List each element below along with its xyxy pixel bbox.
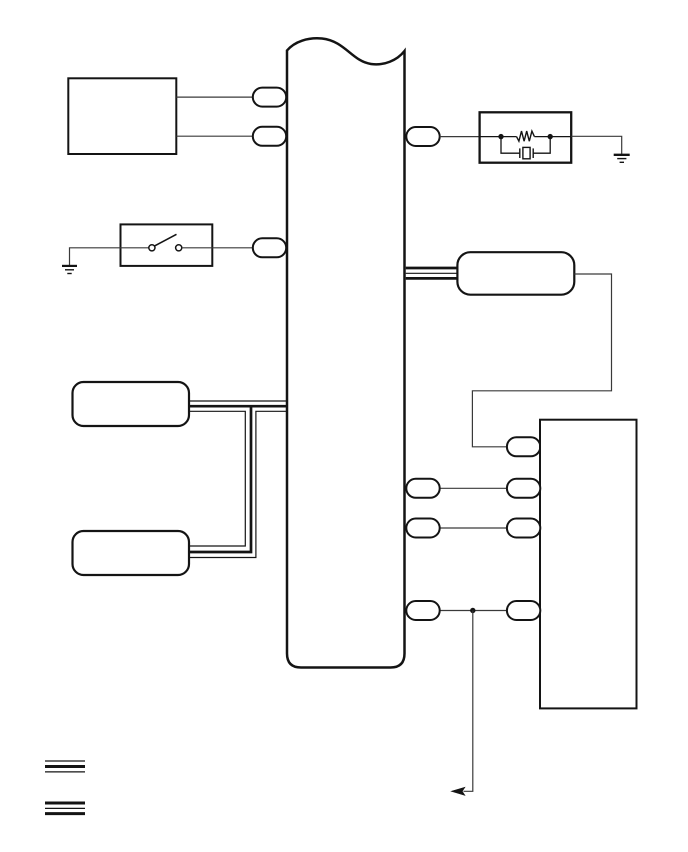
switch throw circle (right) — [176, 245, 182, 251]
shielded cable: thick core branch (vertical to lower device) — [190, 405, 251, 552]
wire junction down to arrow — [464, 611, 473, 792]
wire switch to ground — [70, 248, 121, 266]
wire through resistor box (right) — [534, 136, 571, 138]
switch lever — [155, 234, 177, 246]
connector pin oval (right, y136) — [406, 127, 439, 146]
shielded cable: thin inner line (upper horizontal) — [189, 400, 287, 402]
crystal element — [520, 147, 533, 158]
shielded cable trunk-to-module (thick upper line) — [406, 267, 458, 270]
resistor zigzag — [517, 131, 535, 141]
legend symbol: cable type 2 (thick-thin-thick) — [45, 803, 85, 814]
component box (top-left) — [68, 78, 176, 154]
node junction dot (left in box) — [498, 134, 503, 139]
connector pin oval (trunk, row1) — [406, 479, 439, 498]
connector pin oval A (right box, y447) — [507, 437, 540, 456]
wire box to pin (lower) — [176, 135, 253, 137]
shielded cable trunk-to-module (thick lower line) — [406, 277, 458, 280]
crystal branch wire (left) — [501, 137, 520, 154]
switch box — [121, 224, 213, 266]
connector pin oval (box, row2) — [507, 519, 540, 538]
legend symbol: cable type 1 (thin-thick-thin) — [45, 761, 85, 772]
controller box (right) — [540, 420, 637, 709]
arrowhead (points left) — [451, 787, 465, 795]
wire through resistor box (left) — [480, 136, 517, 138]
node junction dot (right in box) — [548, 134, 553, 139]
shielded cable: thin line upper-left to lower (inner corner path) — [189, 411, 245, 546]
connector pin oval (box, row3) — [507, 601, 540, 620]
ground (right) — [614, 155, 630, 163]
wire box to pin (upper) — [176, 96, 253, 98]
resistor network box — [480, 112, 572, 162]
wire module to pin A (Z path) — [472, 274, 611, 447]
device (rounded box, left lower) — [73, 531, 190, 575]
connector pin oval (left, y248) — [253, 238, 286, 257]
module (rounded box, right) — [457, 252, 574, 295]
connector pin oval (left, y97) — [253, 88, 286, 107]
switch contact wire (inside right) — [182, 247, 213, 249]
connector pin oval (trunk, row2) — [406, 519, 439, 538]
ground (left) — [62, 266, 77, 274]
wire row1 — [440, 487, 507, 489]
connector pin oval (left, y136) — [253, 127, 286, 146]
switch contact wire (inside left) — [121, 247, 149, 249]
node junction dot (row3) — [470, 608, 475, 613]
harness trunk (central column with break wave at top) — [287, 38, 405, 667]
crystal branch wire (right) — [533, 137, 550, 154]
shielded cable: thin outer line (right of branch, to trunk and down) — [190, 411, 287, 557]
wire pin to resistor box — [440, 136, 480, 138]
wire row2 — [440, 527, 507, 529]
device (rounded box, left upper) — [73, 382, 190, 426]
shielded cable: thick core (upper horizontal) — [189, 405, 287, 408]
connector pin oval (box, row1) — [507, 479, 540, 498]
wire row3 — [440, 610, 507, 612]
wire resistor box to ground — [571, 136, 622, 154]
switch pole circle (left) — [149, 245, 155, 251]
wire switch to pin — [212, 247, 253, 249]
shielded cable trunk-to-module (thin middle line) — [406, 272, 458, 274]
connector pin oval (trunk, row3) — [406, 601, 439, 620]
